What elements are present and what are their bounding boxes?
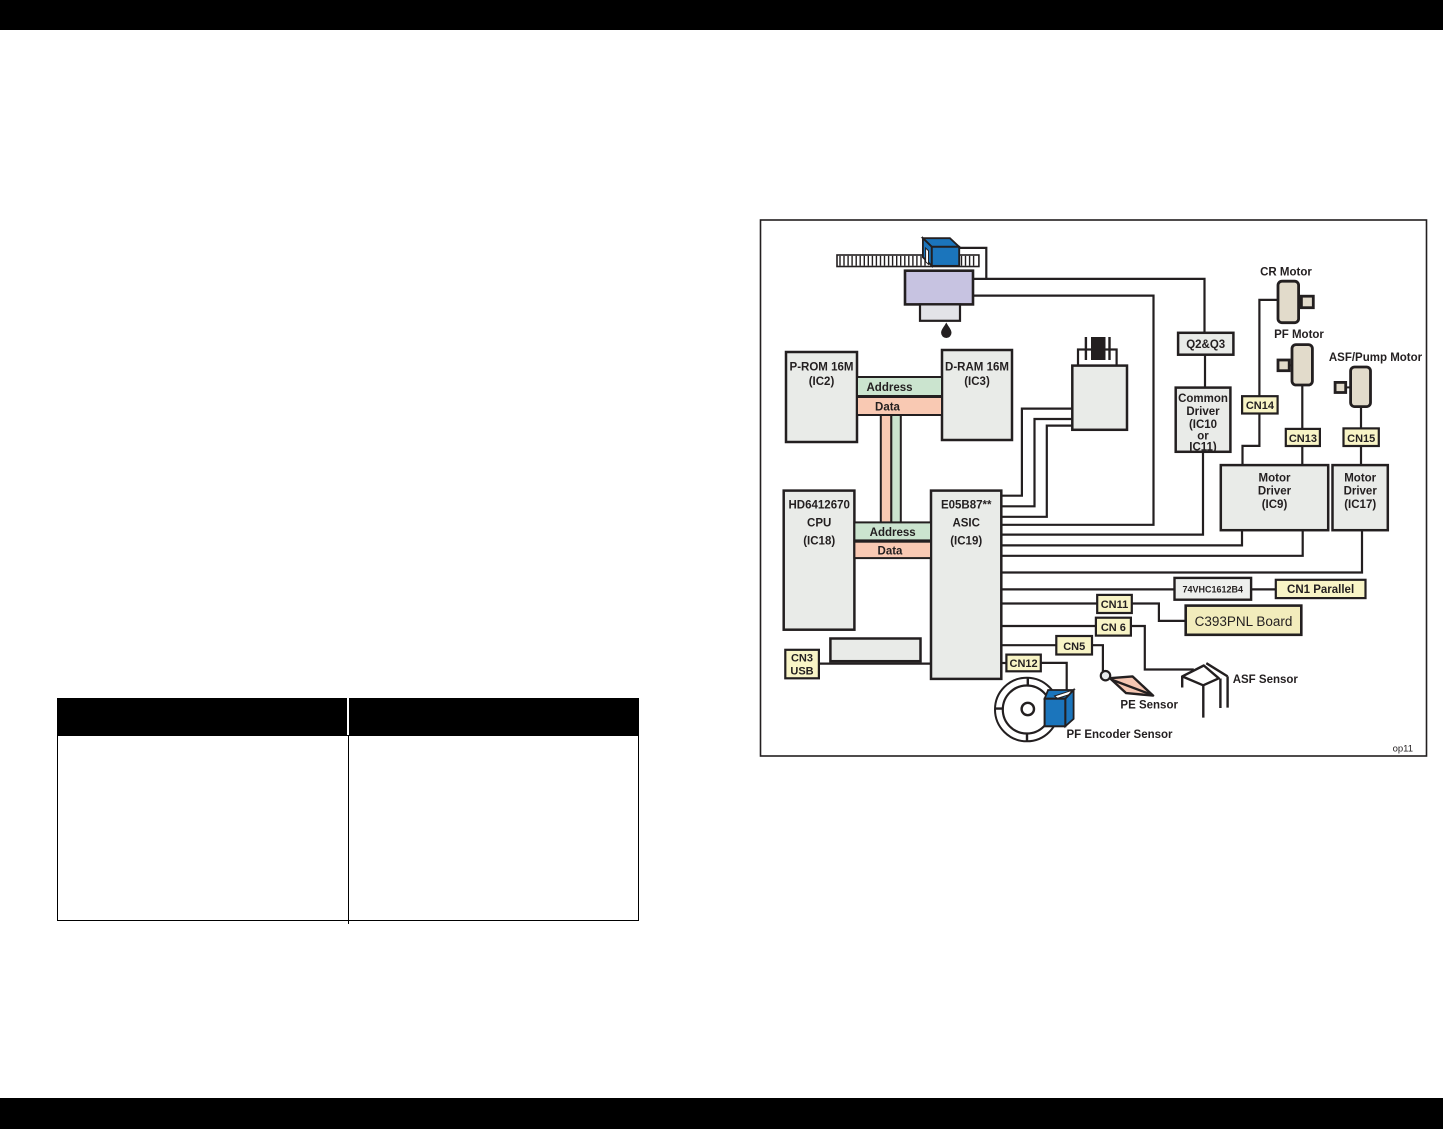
wire Common Driver to ASIC [1001, 452, 1203, 535]
svg-text:(IC2): (IC2) [809, 376, 835, 388]
wire Motor Driver IC17 to ASIC [1001, 530, 1362, 572]
wire ASF/Pump Motor via CN15 to Motor Driver IC17 [1360, 407, 1362, 466]
table header row (black) [57, 698, 639, 735]
wire CN3 USB to ASIC [819, 662, 931, 664]
diagram frame border [761, 220, 1427, 756]
wire CR Motor via CN14 to Motor Driver IC9 [1243, 300, 1279, 465]
block 74VHC1612B4 [1175, 578, 1252, 600]
svg-text:PE Sensor: PE Sensor [1120, 699, 1178, 711]
wire ASIC to CN5 [1001, 644, 1056, 646]
svg-text:PF Motor: PF Motor [1274, 329, 1324, 341]
motor ASF/Pump Motor [1329, 352, 1423, 407]
svg-text:CN11: CN11 [1101, 599, 1129, 611]
svg-text:CN1 Parallel: CN1 Parallel [1287, 584, 1354, 596]
ink drop [941, 323, 951, 339]
address bus CPU to ASIC [854, 522, 931, 540]
svg-text:CN12: CN12 [1010, 658, 1038, 670]
svg-text:Address: Address [870, 527, 916, 539]
svg-text:Driver: Driver [1258, 486, 1292, 498]
svg-text:D-RAM 16M: D-RAM 16M [945, 362, 1009, 374]
block Q2&Q3 [1178, 333, 1233, 355]
svg-text:Data: Data [875, 401, 901, 413]
svg-text:(IC18): (IC18) [803, 535, 835, 547]
svg-text:Q2&Q3: Q2&Q3 [1186, 339, 1225, 351]
connector CN11 [1097, 595, 1132, 613]
PF encoder sensor cube [1045, 690, 1074, 726]
svg-text:IC11): IC11) [1189, 442, 1217, 454]
bottom black banner bar [0, 1098, 1443, 1129]
svg-text:ASF Sensor: ASF Sensor [1233, 674, 1299, 686]
svg-text:CPU: CPU [807, 517, 831, 529]
PE sensor lever [1110, 676, 1153, 695]
svg-text:HD6412670: HD6412670 [789, 499, 850, 511]
connector CN 6 [1096, 618, 1131, 636]
svg-text:(IC19): (IC19) [950, 535, 982, 547]
block D-RAM 16M (IC3) [942, 350, 1012, 440]
unlabeled block (reset IC) [830, 639, 920, 662]
svg-text:Motor: Motor [1259, 473, 1291, 485]
connector CN14 [1242, 396, 1278, 413]
wire A: carriage to Q2&Q3 [973, 279, 1205, 333]
svg-text:CR Motor: CR Motor [1260, 267, 1312, 279]
svg-text:ASF/Pump Motor: ASF/Pump Motor [1329, 352, 1423, 364]
wire Motor Driver IC9 to ASIC (right) [1001, 530, 1302, 556]
svg-text:USB: USB [790, 666, 813, 678]
svg-text:(IC3): (IC3) [964, 376, 990, 388]
wire ASIC to CN12 [1001, 662, 1006, 664]
block C393PNL Board [1186, 606, 1302, 635]
wire 74VHC1612B4 to CN1 Parallel [1251, 588, 1276, 590]
CR encoder sensor cube on belt [923, 238, 959, 266]
data bus P-ROM to D-RAM [857, 397, 942, 415]
svg-text:(IC17): (IC17) [1344, 499, 1376, 511]
block Motor Driver (IC9) [1221, 465, 1328, 530]
table header divider (white) [347, 698, 349, 735]
wire B: carriage to ASIC (IC19) [973, 296, 1154, 525]
block Common Driver (IC10 or IC11) [1176, 388, 1231, 454]
wire Motor Driver IC9 to ASIC (left) [1001, 530, 1242, 545]
vertical address/data bus pair [881, 415, 901, 523]
connector CN12 [1006, 655, 1040, 672]
wire CN 6 to ASF Sensor [1131, 626, 1194, 670]
wire ASIC to print head 1 [1001, 409, 1072, 496]
svg-text:CN 6: CN 6 [1101, 622, 1126, 634]
table body border [57, 735, 639, 922]
svg-text:P-ROM 16M: P-ROM 16M [790, 362, 854, 374]
connector CN1 Parallel [1276, 580, 1366, 598]
wire: CR encoder cube to wire A [959, 248, 986, 279]
block HD6412670 CPU (IC18) [784, 491, 855, 630]
svg-text:Common: Common [1178, 393, 1228, 405]
svg-text:CN14: CN14 [1246, 400, 1275, 412]
PE sensor pivot [1101, 671, 1110, 680]
wire ASIC to print head 3 [1001, 426, 1072, 517]
block P-ROM 16M (IC2) [786, 352, 857, 442]
ASF sensor [1182, 663, 1227, 717]
wire PF Motor via CN13 to Motor Driver IC9 [1301, 385, 1303, 465]
wire ASIC to print head 2 [1001, 419, 1072, 506]
svg-text:ASIC: ASIC [952, 517, 979, 529]
wire CN5 to PE Sensor [1092, 645, 1103, 671]
print head driver component [1072, 337, 1127, 430]
data bus CPU to ASIC [854, 542, 931, 558]
svg-text:Address: Address [866, 382, 912, 394]
svg-text:op11: op11 [1393, 744, 1413, 755]
carriage unit (lavender) [905, 271, 973, 305]
connector CN13 [1286, 429, 1320, 446]
block Motor Driver (IC17) [1333, 465, 1388, 530]
svg-text:Data: Data [878, 546, 904, 558]
address bus P-ROM to D-RAM [857, 377, 942, 396]
svg-text:CN3: CN3 [791, 653, 813, 665]
connector CN3 USB [785, 650, 819, 679]
print head (gray) [920, 304, 960, 320]
connector CN15 [1344, 428, 1379, 446]
svg-text:Driver: Driver [1344, 486, 1378, 498]
motor PF Motor [1274, 329, 1324, 385]
connector CN5 [1056, 636, 1092, 655]
wire CN11 to C393PNL Board [1132, 604, 1186, 621]
PF encoder disc [995, 678, 1059, 742]
table body column divider [348, 735, 350, 924]
wire ASIC to 74VHC1612B4 [1001, 588, 1174, 590]
svg-text:CN5: CN5 [1063, 641, 1085, 653]
svg-text:CN13: CN13 [1289, 433, 1317, 445]
svg-text:Motor: Motor [1344, 473, 1376, 485]
svg-text:E05B87**: E05B87** [941, 499, 992, 511]
block E05B87 ASIC (IC19) [931, 491, 1001, 679]
wire Q2&Q3 to Common Driver [1204, 355, 1206, 388]
svg-text:PF Encoder Sensor: PF Encoder Sensor [1066, 729, 1173, 741]
top black banner bar [0, 0, 1443, 30]
svg-text:(IC10: (IC10 [1189, 419, 1217, 431]
svg-text:74VHC1612B4: 74VHC1612B4 [1183, 585, 1244, 595]
svg-text:(IC9): (IC9) [1262, 499, 1288, 511]
timing belt [837, 255, 979, 267]
wire ASIC to CN11 [1001, 602, 1097, 604]
wire CN12 to PF encoder sensor [1041, 663, 1067, 690]
svg-text:C393PNL Board: C393PNL Board [1195, 614, 1293, 629]
wire ASIC to CN 6 [1001, 625, 1096, 627]
svg-text:CN15: CN15 [1347, 433, 1375, 445]
svg-text:Driver: Driver [1186, 406, 1220, 418]
motor CR Motor [1260, 267, 1313, 323]
